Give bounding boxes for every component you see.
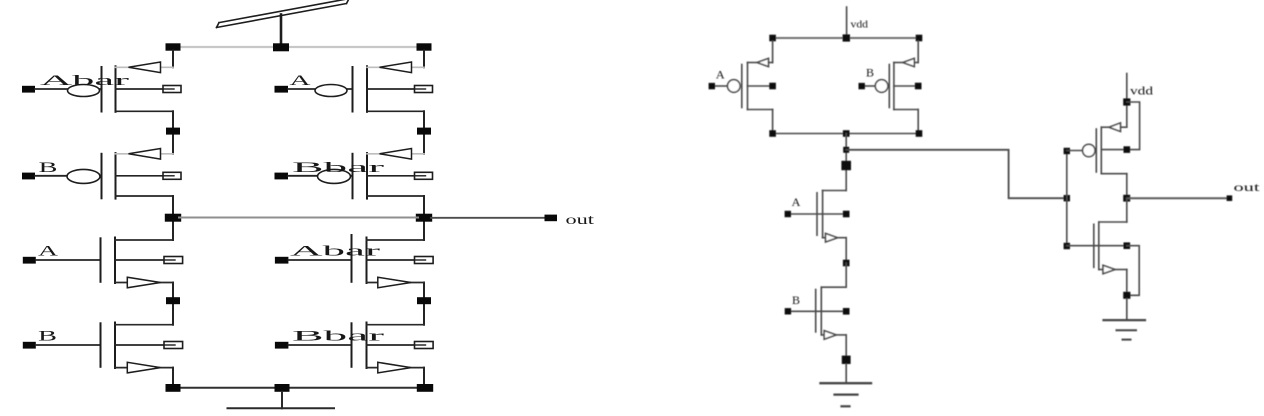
- node input-pmos gate: [1064, 148, 1070, 154]
- svg-text:out: out: [1234, 180, 1261, 194]
- node out terminal: [1227, 195, 1233, 201]
- svg-text:B: B: [792, 293, 800, 307]
- svg-text:Abar: Abar: [40, 73, 129, 89]
- node inverter output: [1123, 195, 1130, 202]
- node nand source: [842, 356, 851, 364]
- node rail-left: [769, 35, 776, 42]
- wire top vdd rail (nand): [773, 37, 919, 39]
- ground (left circuit): [228, 392, 335, 409]
- svg-text:Abar: Abar: [290, 244, 380, 260]
- node bottom-left: [166, 384, 181, 392]
- svg-text:A: A: [290, 73, 311, 89]
- node bulk MN3: [1124, 242, 1131, 249]
- node gate terminal MN1: [785, 211, 791, 217]
- node out terminal: [545, 215, 558, 222]
- node rail-center: [843, 34, 850, 41]
- node input-nmos gate: [1064, 243, 1070, 249]
- nmos MN1 (A, nand): [790, 191, 846, 264]
- nmos M6 (Abar): [275, 235, 433, 288]
- svg-text:vdd: vdd: [851, 18, 869, 30]
- wire output rail: [179, 217, 418, 219]
- ground (nand): [821, 364, 872, 406]
- wire bottom rail: [173, 387, 424, 389]
- wire nand output to inverter: [846, 150, 1063, 198]
- LEFT CIRCUIT (CMOS XOR gate): [22, 0, 594, 408]
- node bulk MN1: [843, 211, 850, 218]
- pmos MP2 (B, nand): [865, 41, 919, 134]
- nmos MN3 (inverter): [1067, 198, 1127, 295]
- nmos M8 (Bbar): [275, 323, 433, 373]
- node rail-right: [916, 35, 923, 42]
- wire bulk tie MP3: [1127, 102, 1140, 150]
- wire series connection: [845, 263, 847, 287]
- RIGHT CIRCUIT (NAND + inverter): [709, 7, 1261, 406]
- node out-right: [416, 214, 432, 222]
- node vdd (inverter): [1123, 98, 1130, 105]
- wire vdd stem (inverter): [1126, 74, 1128, 103]
- node bulk MP3: [1124, 146, 1131, 153]
- nmos M7 (B): [23, 323, 183, 373]
- pmos M4 (Bbar): [275, 149, 433, 199]
- svg-text:B: B: [866, 65, 874, 79]
- svg-text:A: A: [716, 67, 725, 81]
- node out-left: [165, 214, 181, 222]
- wire top vdd rail: [173, 46, 424, 48]
- node bottom-right: [417, 384, 433, 392]
- pmos M1 (Abar): [22, 62, 181, 112]
- node mid-left PMOS junction: [166, 128, 180, 135]
- svg-text:A: A: [792, 195, 801, 209]
- wire output to out terminal: [431, 217, 546, 219]
- wire inverter input rail: [1066, 151, 1068, 246]
- svg-text:A: A: [38, 244, 58, 260]
- node bottom-center: [275, 384, 290, 392]
- svg-text:B: B: [38, 329, 57, 345]
- wire nand output vertical: [845, 134, 847, 191]
- node nmos series junction: [843, 260, 850, 267]
- node mid-right PMOS junction: [417, 128, 431, 135]
- node drain-center: [843, 130, 850, 137]
- pmos MP1 (A, nand): [715, 41, 773, 134]
- node drain-left: [769, 130, 776, 137]
- svg-text:vdd: vdd: [1130, 86, 1153, 98]
- node inverter source: [1123, 292, 1130, 299]
- svg-text:Bbar: Bbar: [292, 329, 384, 345]
- node nmos-left junction: [166, 297, 180, 304]
- wire out: [1127, 197, 1230, 199]
- wire left branch vertical: [172, 51, 174, 388]
- wire vdd stem: [280, 15, 283, 48]
- node top-right: [417, 43, 432, 50]
- svg-text:B: B: [39, 160, 58, 176]
- wire pmos drain rail (nand): [773, 133, 919, 135]
- port marker nand output: [841, 161, 851, 170]
- node top-center: [273, 43, 289, 51]
- pmos MP3 (inverter): [1067, 102, 1127, 198]
- nmos MN2 (B, nand): [790, 287, 846, 360]
- ground (inverter): [1104, 299, 1146, 340]
- node nmos-right junction: [417, 297, 431, 304]
- wire right branch vertical: [423, 51, 425, 388]
- pmos M2 (A): [275, 62, 433, 112]
- node drain-right: [916, 130, 923, 137]
- vdd bar (diagonal supply rail): [217, 0, 350, 27]
- node nand output junction: [843, 147, 849, 153]
- node bulk MN2: [843, 308, 850, 315]
- wire bulk tie MN3: [1127, 246, 1139, 296]
- nmos M5 (A): [23, 238, 183, 288]
- node bulk MP2: [915, 83, 922, 90]
- node gate terminal MP1: [709, 83, 715, 89]
- node top-left: [166, 43, 181, 50]
- node bulk MP1: [769, 83, 776, 90]
- svg-text:out: out: [566, 213, 595, 228]
- node gate terminal MP2: [859, 83, 865, 89]
- pmos M3 (B): [22, 149, 181, 199]
- wire vdd stem (nand): [846, 7, 848, 38]
- node inverter input junction: [1064, 195, 1070, 201]
- node gate terminal MN2: [785, 308, 791, 314]
- svg-text:Bbar: Bbar: [292, 160, 384, 176]
